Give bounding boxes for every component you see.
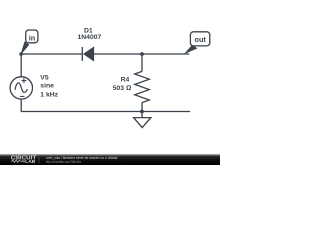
svg-text:503 Ω: 503 Ω — [113, 85, 131, 92]
svg-text:R4: R4 — [121, 77, 130, 84]
wire V5 top lead — [20, 54, 22, 78]
wire bottom rail — [21, 111, 190, 113]
svg-text:out: out — [195, 35, 207, 44]
wire V5 bottom lead — [20, 99, 22, 112]
logo CircuitLab — [11, 155, 37, 164]
flag out — [184, 32, 210, 54]
node junction resistor bottom — [140, 110, 144, 114]
ground — [134, 112, 151, 128]
svg-text:1N4007: 1N4007 — [77, 34, 101, 41]
wire top rail left (in node to diode) — [21, 53, 82, 55]
diode D1 — [82, 47, 94, 61]
node junction resistor top — [140, 52, 144, 56]
svg-text:LAB: LAB — [25, 159, 35, 164]
svg-text:sine: sine — [40, 82, 54, 89]
svg-text:V5: V5 — [40, 74, 49, 81]
footer divider — [38, 157, 40, 164]
footer bar — [0, 154, 220, 165]
source V5 — [10, 77, 32, 99]
svg-text:1 kHz: 1 kHz — [40, 92, 58, 99]
wire top rail right (diode to out node) — [94, 53, 190, 55]
svg-text:in: in — [29, 33, 36, 42]
flag in — [19, 30, 38, 56]
resistor R4 — [135, 54, 150, 112]
svg-text:http://circuitlab.com/766m2w: http://circuitlab.com/766m2w — [46, 160, 81, 164]
